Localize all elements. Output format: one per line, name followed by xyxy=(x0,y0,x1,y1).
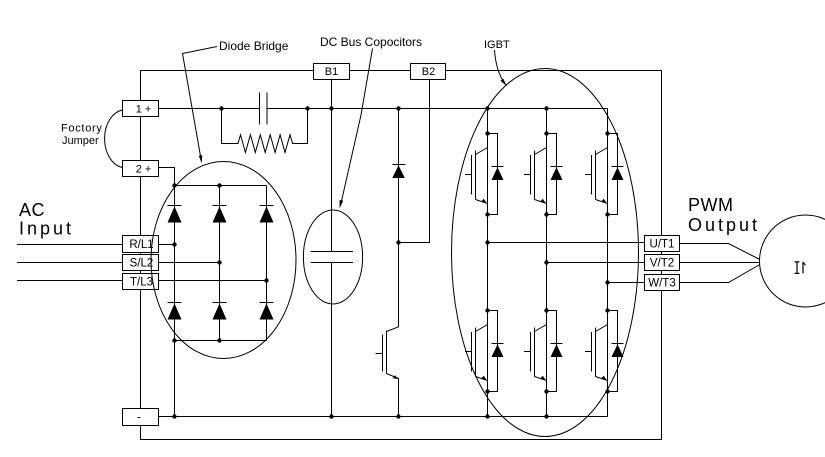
svg-text:T/L3: T/L3 xyxy=(130,277,153,289)
svg-text:DC Bus Copocitors: DC Bus Copocitors xyxy=(320,35,422,49)
svg-text:Diode Bridge: Diode Bridge xyxy=(219,39,289,53)
svg-text:B1: B1 xyxy=(325,66,338,78)
svg-text:PWM: PWM xyxy=(688,195,734,215)
svg-text:S/L2: S/L2 xyxy=(130,258,154,270)
svg-text:B2: B2 xyxy=(422,66,435,78)
svg-text:V/T2: V/T2 xyxy=(650,258,674,270)
svg-text:Output: Output xyxy=(688,215,760,235)
svg-text:-: - xyxy=(137,410,141,424)
svg-text:W/T3: W/T3 xyxy=(648,278,675,290)
svg-text:R/L1: R/L1 xyxy=(129,239,153,251)
svg-text:AC: AC xyxy=(19,200,45,220)
svg-text:U/T1: U/T1 xyxy=(650,239,675,251)
svg-text:IGBT: IGBT xyxy=(484,39,510,51)
svg-text:1 +: 1 + xyxy=(136,104,152,116)
svg-text:2 +: 2 + xyxy=(136,164,152,176)
svg-text:Foctory: Foctory xyxy=(61,123,103,135)
svg-text:Jumper: Jumper xyxy=(62,135,99,147)
svg-text:Input: Input xyxy=(19,219,74,239)
